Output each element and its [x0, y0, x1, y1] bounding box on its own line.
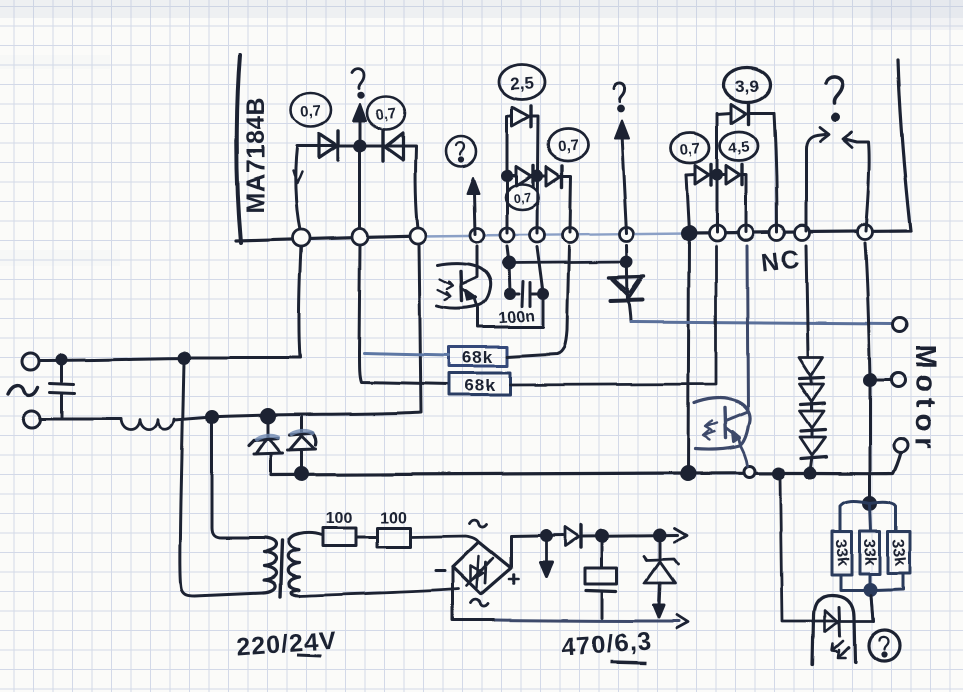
svg-text:100n: 100n: [498, 308, 536, 328]
svg-text:100: 100: [326, 510, 353, 527]
svg-text:100: 100: [380, 510, 407, 527]
svg-text:0,7: 0,7: [513, 190, 532, 205]
svg-text:0,7: 0,7: [679, 140, 701, 159]
svg-text:0,7: 0,7: [300, 102, 322, 120]
svg-text:Motor: Motor: [909, 344, 941, 455]
svg-text:33k: 33k: [832, 539, 852, 567]
svg-text:4,5: 4,5: [728, 138, 750, 156]
svg-text:NC: NC: [760, 245, 803, 277]
svg-text:0,7: 0,7: [557, 137, 579, 156]
svg-text:3,9: 3,9: [735, 77, 759, 96]
svg-text:33k: 33k: [861, 538, 879, 565]
svg-text:2,5: 2,5: [510, 73, 535, 93]
svg-text:68k: 68k: [464, 376, 495, 395]
svg-text:0,7: 0,7: [375, 105, 398, 124]
svg-text:68k: 68k: [462, 348, 493, 367]
svg-text:MA7184B: MA7184B: [242, 97, 270, 213]
svg-text:33k: 33k: [889, 538, 909, 566]
